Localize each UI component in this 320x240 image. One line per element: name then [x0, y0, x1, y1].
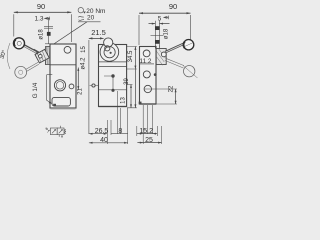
dimension 90 right arrows [139, 12, 191, 14]
symbol lever actuator [46, 128, 51, 133]
middle body lower line [99, 89, 127, 91]
knob centre dot [110, 52, 112, 54]
port hole lower right view [144, 85, 151, 92]
svg-text:13: 13 [121, 97, 127, 104]
port hole upper right view [143, 71, 150, 78]
dimension 40 line [89, 142, 128, 144]
symbol right box [57, 128, 64, 135]
svg-text:39: 39 [124, 78, 130, 85]
port centre line [144, 88, 177, 90]
upper pin dot [111, 74, 114, 77]
lever lower position (phantom) stem [26, 62, 39, 71]
note leader diagonal to lever clevis [49, 22, 88, 48]
right side dimension line 34.5 [134, 47, 136, 108]
dimension 90 left line [14, 11, 72, 13]
dimension 90 right line [139, 12, 191, 14]
middle body bottom edge [99, 106, 127, 108]
svg-text:15.2: 15.2 [139, 128, 153, 135]
slot plug upper [155, 26, 160, 30]
small pin right view [154, 73, 157, 76]
slot plug lower [155, 40, 160, 44]
dimension line 39 [130, 85, 132, 108]
extension lines bottom centre [107, 91, 127, 144]
lever stem upper [24, 45, 37, 52]
extension line left of 90 dim [13, 14, 15, 36]
dimension 22 line [175, 89, 177, 104]
svg-text:15: 15 [81, 46, 87, 53]
tick line c [45, 43, 53, 45]
small leader circle between views [92, 84, 95, 87]
lower pin dot [111, 89, 114, 92]
dimension 26.5 line [89, 133, 107, 135]
lower lever axis line [183, 66, 198, 79]
svg-text:5: 5 [158, 16, 162, 23]
left body [50, 44, 76, 108]
symbol arrow right box [59, 130, 63, 134]
extension line x=190.5 [190, 15, 192, 42]
lever ball upper [14, 38, 25, 49]
G1/4 leader line [46, 75, 51, 104]
dimension 8 line [111, 133, 128, 135]
svg-text:ø18: ø18 [39, 29, 45, 40]
svg-text:34.5: 34.5 [128, 50, 134, 62]
knob inner circle [104, 47, 115, 58]
svg-text:1.3: 1.3 [35, 16, 44, 23]
small hole left view [69, 84, 74, 89]
symbol ports down [59, 135, 62, 137]
right body [140, 47, 157, 105]
clevis block (hatched) [35, 49, 49, 63]
left body bottom shadow [50, 107, 76, 109]
svg-text:20: 20 [87, 15, 95, 22]
tick line a [44, 26, 53, 28]
lever slot lines [155, 21, 159, 47]
symbol port line up [60, 126, 62, 128]
svg-text:ø18: ø18 [164, 28, 170, 39]
lower lever phantom stem right view [165, 58, 184, 68]
clevis mount band [45, 47, 50, 65]
note underline [78, 21, 101, 23]
bottom port slot [52, 97, 70, 106]
long extension line x=89 [88, 40, 90, 134]
svg-text:25: 25 [145, 137, 153, 144]
dimension 5 arrow symbol [164, 16, 169, 20]
svg-text:22: 22 [168, 85, 174, 92]
wrench icon [78, 16, 84, 20]
dimension 21.5 line [89, 37, 104, 39]
dimension 21 line [77, 68, 79, 90]
clevis pivot pin right view [161, 52, 166, 57]
dimension 15.2 line [137, 133, 158, 135]
dark plug dot on slot [53, 104, 56, 106]
clevis block right view [156, 49, 166, 65]
middle body joint lines [99, 62, 127, 67]
bottom extension line [156, 103, 177, 105]
symbol left box [50, 128, 57, 135]
extension ticks right of middle body [127, 47, 137, 108]
svg-text:21: 21 [78, 88, 84, 95]
lever lower position (phantom) ball [15, 66, 27, 78]
extension lines bottom right [137, 105, 162, 144]
symbol arrow left box [52, 130, 56, 134]
symbol spring [64, 129, 66, 134]
dimension 21.5 arrows [89, 37, 104, 39]
dimension 25 line [137, 142, 161, 144]
port circle G1/4 [54, 80, 65, 91]
dark corner plug bottom-left [139, 102, 142, 105]
extension line x=139 [138, 15, 140, 45]
svg-text:26.5: 26.5 [95, 128, 109, 135]
mounting hole right view [143, 50, 150, 57]
svg-text:8: 8 [118, 128, 122, 135]
dimension 5 lines and outside arrows [149, 23, 170, 25]
svg-text:90: 90 [169, 2, 177, 11]
lower lever phantom ball right view [184, 66, 195, 77]
slot cross tick [151, 34, 164, 36]
torque icon circle arrow [78, 8, 83, 13]
upper lever ball right view [183, 40, 193, 50]
slot plug on leader [47, 32, 51, 36]
lever socket dark wedge [33, 50, 38, 53]
vertical leader line at clevis top [48, 18, 50, 44]
middle body [99, 45, 127, 107]
30 degree arc [7, 43, 10, 69]
pin connector line [104, 76, 113, 90]
lever slot sides [155, 46, 159, 49]
upper lever stem right view [165, 44, 184, 53]
11.2 underline [140, 63, 155, 65]
svg-text:90: 90 [37, 2, 45, 11]
top boss circle [104, 38, 113, 47]
left body mid line [50, 64, 76, 66]
clevis pivot pin [39, 54, 43, 58]
boss inner circle [105, 46, 110, 51]
dimension 1.3 arrow symbol [45, 17, 50, 21]
svg-text:ø4.2: ø4.2 [81, 57, 87, 70]
svg-text:21.5: 21.5 [91, 28, 106, 37]
svg-text:40: 40 [100, 137, 108, 144]
svg-text:G 1/4: G 1/4 [32, 82, 39, 98]
mounting hole left view [64, 46, 71, 53]
extension line right of 90 dim [70, 14, 72, 42]
dimension 90 left arrows [14, 11, 72, 13]
knob outer circle [100, 43, 119, 62]
tick line b [44, 27, 53, 29]
